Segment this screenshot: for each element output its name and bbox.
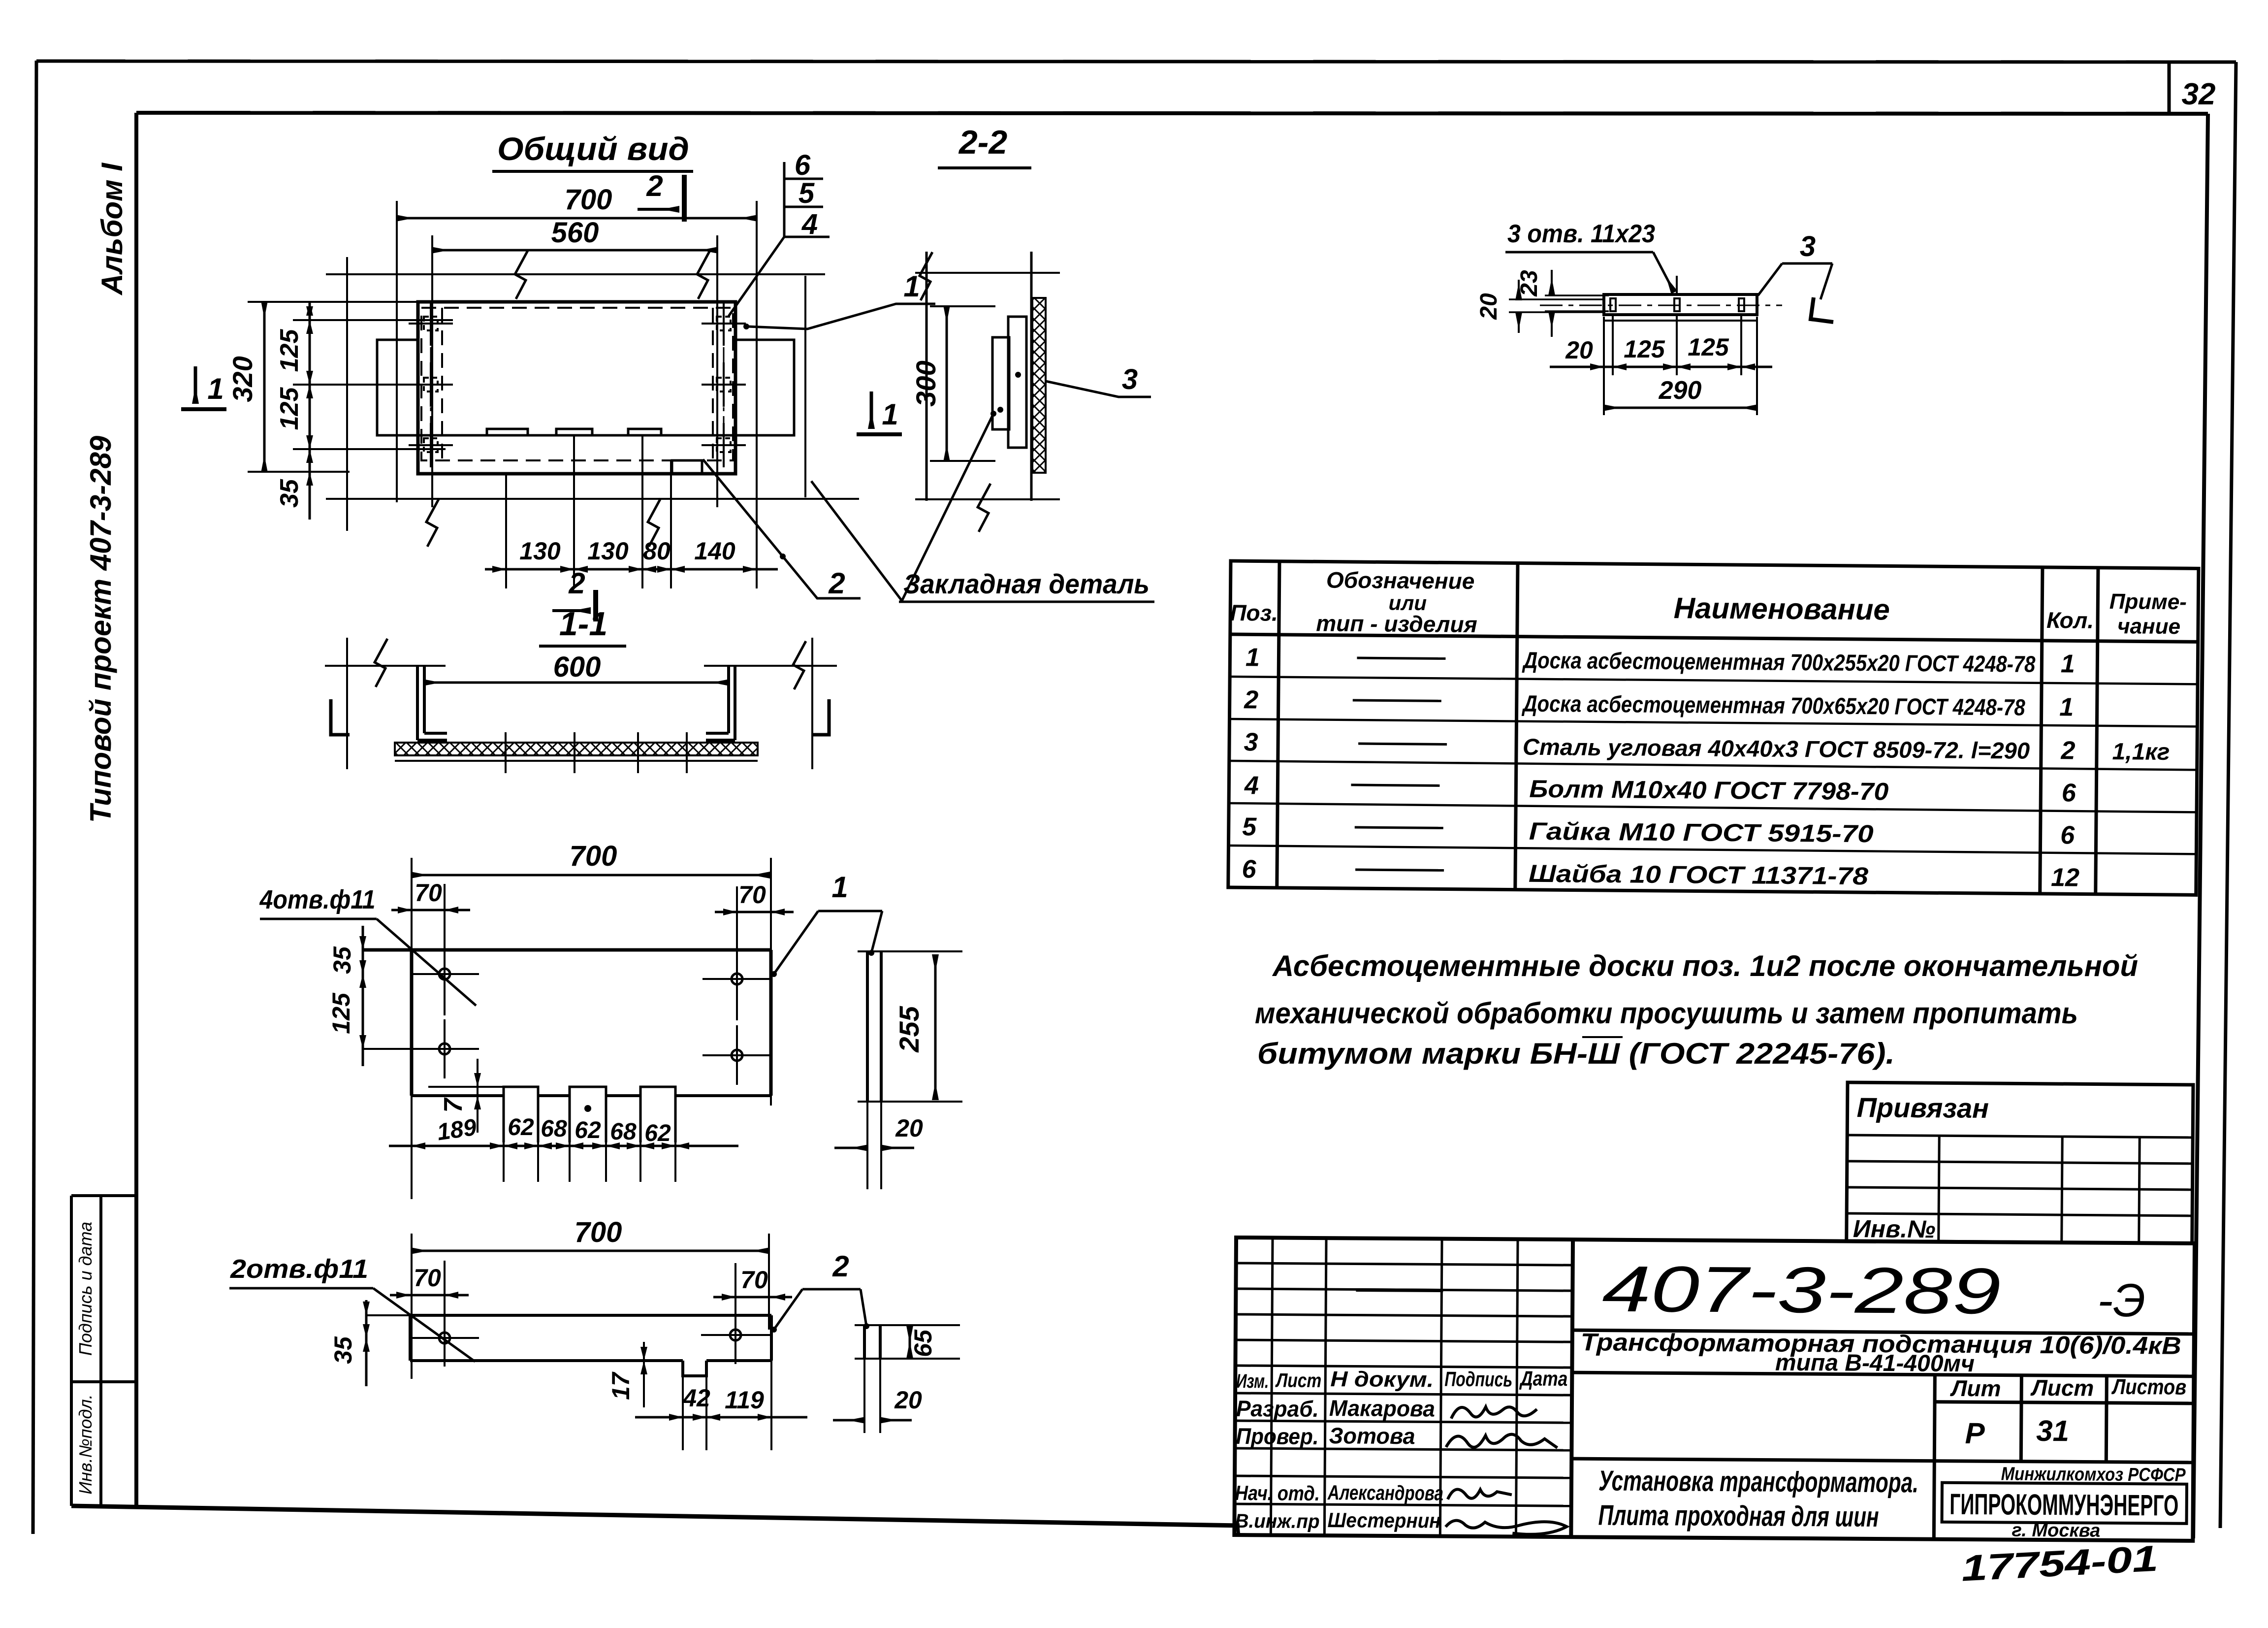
svg-text:Дата: Дата <box>1519 1367 1568 1391</box>
left angle profile <box>417 666 447 740</box>
bottom notch <box>672 460 702 474</box>
svg-text:20: 20 <box>1565 336 1593 364</box>
svg-text:1,1кг: 1,1кг <box>2112 739 2170 765</box>
svg-text:В.инж.пр: В.инж.пр <box>1235 1510 1319 1532</box>
top boundary tick <box>915 272 1060 274</box>
dim 300 extension bottom <box>930 460 995 462</box>
break mark on top wall line right <box>697 251 710 299</box>
plate outline <box>418 302 735 474</box>
dim 70 left <box>390 1294 469 1297</box>
slot 1 <box>504 1087 538 1142</box>
left extension vertical <box>411 858 413 1199</box>
angle profile symbol <box>1811 297 1833 322</box>
svg-text:35: 35 <box>328 946 356 974</box>
svg-text:300: 300 <box>910 360 941 406</box>
hole bottom-right <box>703 1009 771 1085</box>
slot 2 <box>570 1087 606 1142</box>
dimension 700 <box>412 874 769 877</box>
plate bottom edge with slots <box>412 1094 771 1097</box>
plate right edge <box>769 950 773 1096</box>
bottom chain dims 189/62/68/62/68/62 <box>389 1145 738 1147</box>
svg-text:1: 1 <box>2061 650 2075 678</box>
svg-text:80: 80 <box>643 537 671 565</box>
hole top-left <box>410 944 479 1004</box>
svg-text:2: 2 <box>646 169 663 202</box>
wall line right <box>811 638 813 769</box>
svg-text:5: 5 <box>799 177 815 209</box>
svg-text:Альбом I: Альбом I <box>96 163 128 296</box>
svg-text:20: 20 <box>895 1114 923 1142</box>
break mark on bottom wall line <box>426 498 439 547</box>
svg-text:Общий вид: Общий вид <box>497 130 689 167</box>
hole left <box>410 1310 479 1367</box>
plate left edge <box>410 950 414 1096</box>
board pos.1 in section <box>1008 317 1026 448</box>
mini dim 7 <box>477 1059 479 1133</box>
svg-text:125: 125 <box>327 992 355 1034</box>
mini dim 17 <box>643 1342 645 1407</box>
dimension 700 <box>397 217 757 220</box>
svg-text:Листов: Листов <box>2111 1375 2186 1400</box>
svg-text:70: 70 <box>738 881 766 909</box>
section mark 1 right <box>857 391 902 434</box>
svg-text:62: 62 <box>644 1120 671 1146</box>
svg-text:Приме-: Приме- <box>2109 589 2187 614</box>
svg-text:Подпись: Подпись <box>1444 1368 1512 1391</box>
bottom dimension line 130 130 80 140 <box>485 568 778 571</box>
break mark on bottom wall line right <box>648 498 661 547</box>
dim 70 left <box>391 909 470 912</box>
dimension 700 <box>412 1250 769 1252</box>
cut hooks <box>331 699 350 735</box>
svg-text:125: 125 <box>275 329 304 372</box>
svg-text:125: 125 <box>1688 333 1729 361</box>
bus tab 2 <box>556 429 592 435</box>
dimension 290 <box>1604 407 1757 409</box>
svg-text:Асбестоцементные доски поз. 1: Асбестоцементные доски поз. 1и2 после ок… <box>1272 949 2138 982</box>
svg-text:20: 20 <box>894 1386 922 1414</box>
dash mark in upper row <box>1356 1290 1443 1290</box>
dimension 320 <box>263 302 266 472</box>
svg-text:6: 6 <box>2060 821 2075 849</box>
bus tab 3 <box>628 429 661 435</box>
dimension 65 <box>909 1327 911 1358</box>
svg-text:560: 560 <box>551 217 599 249</box>
chain dim 35/125 left <box>362 926 364 1066</box>
slot 3 <box>1739 298 1744 311</box>
section mark 1 left <box>181 366 226 409</box>
left dimension extension lines <box>248 302 453 472</box>
leader 3 <box>1046 381 1151 397</box>
plate inner bottom line <box>418 434 735 437</box>
ext line hole2 left <box>363 1048 473 1050</box>
svg-text:Нач. отд.: Нач. отд. <box>1235 1481 1320 1505</box>
extension line 560 right <box>716 235 718 507</box>
hidden line right strip <box>712 308 714 460</box>
svg-text:35: 35 <box>329 1336 357 1364</box>
dimension 20 side <box>834 1147 867 1149</box>
svg-text:62: 62 <box>508 1114 534 1140</box>
wall bottom line <box>326 498 859 500</box>
svg-text:12: 12 <box>2051 863 2079 892</box>
wall left line <box>926 252 928 501</box>
svg-text:6: 6 <box>795 149 811 181</box>
center dot in slot 2 <box>584 1105 591 1112</box>
margin stamp boxes <box>71 1196 136 1506</box>
asbestos board strip hatched <box>395 743 758 755</box>
svg-text:130: 130 <box>519 537 561 565</box>
svg-text:битумом марки БН-Ш (ГОСТ 222: битумом марки БН-Ш (ГОСТ 22245-76). <box>1257 1037 1895 1070</box>
svg-text:Поз.: Поз. <box>1230 600 1278 626</box>
svg-text:-Э: -Э <box>2097 1274 2145 1327</box>
bolt centerlines <box>430 313 432 457</box>
extension line 700 right <box>756 201 758 588</box>
svg-text:2-2: 2-2 <box>958 124 1007 161</box>
slot tick marks <box>506 732 687 773</box>
inner frame top <box>136 113 2208 114</box>
svg-text:Изм.: Изм. <box>1236 1370 1269 1392</box>
svg-text:1-1: 1-1 <box>559 605 607 643</box>
hidden board outline <box>421 308 733 460</box>
hidden line left strip <box>441 308 443 460</box>
designation dashes <box>1350 658 1447 871</box>
svg-text:Провер.: Провер. <box>1236 1423 1318 1449</box>
bottom chain extension verticals <box>506 435 671 588</box>
hole top-right <box>703 949 771 1009</box>
outer border right <box>2220 62 2236 1528</box>
right part lines <box>1571 1330 2194 1541</box>
svg-text:20: 20 <box>1476 293 1502 320</box>
svg-text:3 отв. 11х23: 3 отв. 11х23 <box>1507 220 1655 248</box>
svg-text:2: 2 <box>568 567 585 600</box>
section mark 2 top <box>638 169 684 222</box>
svg-text:4: 4 <box>801 208 818 240</box>
svg-text:2: 2 <box>828 567 845 600</box>
bar centerline <box>1540 305 1782 306</box>
svg-text:Лист: Лист <box>1275 1369 1322 1392</box>
break marks on section walls <box>920 252 932 300</box>
notch extension verticals <box>683 1361 771 1450</box>
mini dim 20 vertical <box>1518 280 1520 299</box>
board pos.2 in section <box>992 337 1009 429</box>
hole right <box>701 1307 770 1364</box>
chain extension verticals below slots <box>504 1142 675 1182</box>
svg-text:Р: Р <box>1965 1417 1985 1450</box>
right extension vertical <box>770 858 772 1106</box>
bottom boundary tick <box>915 498 1060 500</box>
slot 2 <box>1674 298 1680 311</box>
plate pos.2 outline <box>410 1315 771 1376</box>
leader to general view <box>811 481 902 601</box>
svg-text:125: 125 <box>275 387 304 430</box>
dims 42 and 119 <box>635 1416 807 1419</box>
extension verticals below bar <box>1604 276 1757 415</box>
dim line 20/125/125 <box>1550 366 1772 368</box>
svg-text:Сталь угловая 40х40х3 ГОСТ 85: Сталь угловая 40х40х3 ГОСТ 8509-72. l=29… <box>1523 734 2030 764</box>
svg-text:700: 700 <box>575 1216 622 1248</box>
side view of board pos.1 <box>867 951 881 1102</box>
svg-text:700: 700 <box>570 840 617 872</box>
svg-text:119: 119 <box>725 1386 764 1414</box>
wall top line <box>326 273 825 275</box>
long vertical left <box>346 257 348 531</box>
svg-text:типа В-41-400мч: типа В-41-400мч <box>1775 1350 1975 1377</box>
svg-text:3: 3 <box>1800 230 1816 262</box>
dimension 255 <box>934 955 937 1099</box>
svg-text:255: 255 <box>894 1006 925 1052</box>
inner frame bottom (sloped) <box>71 1506 1240 1526</box>
svg-text:5: 5 <box>1242 813 1257 841</box>
svg-text:290: 290 <box>1659 376 1702 405</box>
dim 70 right <box>715 911 794 913</box>
svg-text:2: 2 <box>2060 736 2075 765</box>
svg-text:Обозначение: Обозначение <box>1326 567 1475 594</box>
break marks <box>375 639 387 687</box>
svg-text:Плита проходная для шин: Плита проходная для шин <box>1598 1499 1879 1533</box>
svg-text:65: 65 <box>909 1329 937 1357</box>
svg-text:Типовой проект 407-3-289: Типовой проект 407-3-289 <box>84 435 117 823</box>
angle steel hatched strip <box>1032 298 1046 473</box>
dimension 300 <box>946 306 948 461</box>
svg-text:Привязан: Привязан <box>1856 1092 1989 1124</box>
sheet number box divider <box>2168 62 2171 114</box>
hole ext vertical right <box>736 886 738 965</box>
extension line 560 left <box>431 235 433 507</box>
base line under strip <box>395 760 758 762</box>
svg-text:320: 320 <box>227 356 258 402</box>
angle bar top view <box>1604 294 1757 315</box>
svg-text:2: 2 <box>1244 685 1258 714</box>
side view of board pos.2 <box>864 1325 880 1359</box>
svg-text:140: 140 <box>694 537 735 565</box>
svg-text:70: 70 <box>414 1264 441 1292</box>
callout stack 6/5/4 <box>729 162 830 316</box>
svg-text:Шайба 10 ГОСТ 11371-78: Шайба 10 ГОСТ 11371-78 <box>1529 860 1869 890</box>
svg-text:Подпись и дата: Подпись и дата <box>75 1222 96 1356</box>
svg-text:Макарова: Макарова <box>1329 1395 1435 1421</box>
dimension 600 <box>424 682 729 684</box>
svg-text:1: 1 <box>882 398 898 431</box>
svg-text:70: 70 <box>415 879 442 907</box>
bolts right column <box>702 301 746 467</box>
wall right line <box>1030 252 1033 501</box>
dim 70 right <box>713 1296 792 1299</box>
svg-text:Кол.: Кол. <box>2046 607 2094 633</box>
svg-text:32: 32 <box>2182 77 2216 111</box>
svg-text:1: 1 <box>903 270 920 303</box>
bolt dot 2 <box>997 407 1003 413</box>
svg-text:Болт М10х40 ГОСТ 7798-70: Болт М10х40 ГОСТ 7798-70 <box>1529 775 1889 806</box>
svg-text:Наименование: Наименование <box>1673 591 1890 626</box>
thin extensions left <box>1509 295 1609 312</box>
svg-text:ГИПРОКОММУНЭНЕРГО: ГИПРОКОММУНЭНЕРГО <box>1949 1488 2178 1522</box>
right ear plate <box>735 340 794 435</box>
inner frame right <box>2193 114 2208 1538</box>
svg-text:Разраб.: Разраб. <box>1236 1396 1319 1422</box>
hole ext vertical left <box>444 884 446 960</box>
bolt chain dimension line <box>309 302 311 520</box>
svg-text:чание: чание <box>2117 614 2180 639</box>
slot 3 <box>640 1087 675 1142</box>
svg-text:68: 68 <box>541 1116 567 1142</box>
svg-text:70: 70 <box>740 1266 768 1294</box>
svg-text:Александрова: Александрова <box>1327 1481 1443 1504</box>
svg-text:г. Москва: г. Москва <box>2012 1520 2100 1541</box>
svg-text:Лист: Лист <box>2030 1375 2094 1401</box>
mini dim 23 vertical <box>1551 270 1553 294</box>
svg-text:407-3-289: 407-3-289 <box>1602 1253 2001 1328</box>
svg-text:125: 125 <box>1624 335 1665 363</box>
svg-text:Инв.№подл.: Инв.№подл. <box>75 1394 96 1494</box>
bar lip line <box>1604 320 1757 322</box>
svg-text:189: 189 <box>435 1114 478 1146</box>
svg-text:31: 31 <box>2036 1414 2069 1447</box>
svg-text:62: 62 <box>575 1117 601 1143</box>
dimension 20 side <box>833 1419 864 1422</box>
svg-text:68: 68 <box>610 1119 637 1145</box>
bolts left column <box>409 301 453 467</box>
svg-text:Шестернин: Шестернин <box>1327 1508 1440 1532</box>
svg-text:Н докум.: Н докум. <box>1330 1367 1434 1392</box>
svg-text:1: 1 <box>2059 693 2074 721</box>
section mark 2 bottom <box>552 567 596 621</box>
dimension 560 <box>432 249 717 252</box>
outer border left <box>33 61 36 1534</box>
bus tab 1 <box>487 429 528 435</box>
svg-text:6: 6 <box>1242 855 1256 883</box>
right angle profile <box>706 666 735 740</box>
leader to section 2-2 <box>902 414 993 601</box>
svg-text:4отв.ф11: 4отв.ф11 <box>259 885 376 914</box>
svg-text:Гайка М10 ГОСТ 5915-70: Гайка М10 ГОСТ 5915-70 <box>1529 817 1874 847</box>
bolt dot 1 <box>1015 372 1021 378</box>
svg-text:механической обработки просуш: механической обработки просушить и затем… <box>1255 997 2078 1030</box>
svg-text:Лит: Лит <box>1950 1375 2001 1401</box>
svg-text:2отв.ф11: 2отв.ф11 <box>230 1254 368 1284</box>
svg-text:4: 4 <box>1244 771 1259 800</box>
break mark on top wall line <box>515 251 528 299</box>
svg-text:Установка трансформатора.: Установка трансформатора. <box>1598 1465 1918 1499</box>
svg-text:3: 3 <box>1244 728 1258 756</box>
wall line left <box>346 638 348 769</box>
svg-text:23: 23 <box>1516 270 1542 297</box>
hole bottom-left <box>410 1004 479 1078</box>
plate top edge <box>363 948 771 952</box>
svg-text:Инв.№: Инв.№ <box>1853 1215 1936 1243</box>
dim 300 extension top <box>930 305 995 307</box>
svg-text:1: 1 <box>831 871 848 904</box>
svg-text:2: 2 <box>832 1250 849 1283</box>
left ear plate <box>377 340 418 435</box>
svg-text:35: 35 <box>275 479 304 508</box>
top ext ticks <box>325 665 446 667</box>
svg-text:3: 3 <box>1122 363 1138 395</box>
svg-text:тип - изделия: тип - изделия <box>1316 610 1477 637</box>
slot 1 <box>1610 298 1616 311</box>
outer border top <box>36 61 2236 62</box>
svg-text:Зотова: Зотова <box>1329 1423 1415 1449</box>
svg-text:6: 6 <box>2062 779 2076 807</box>
stray vertical right <box>804 276 806 497</box>
svg-text:7: 7 <box>439 1097 468 1112</box>
dim 35 <box>365 1300 368 1386</box>
svg-text:17: 17 <box>607 1371 635 1400</box>
svg-text:Закладная деталь: Закладная деталь <box>903 568 1150 599</box>
svg-text:Доска асбестоцементная 700х255: Доска асбестоцементная 700х255х20 ГОСТ 4… <box>1522 647 2036 677</box>
signatures <box>1451 1407 1537 1419</box>
svg-text:600: 600 <box>553 651 601 683</box>
svg-text:1: 1 <box>1246 643 1260 672</box>
inner frame left <box>134 113 138 1507</box>
svg-text:130: 130 <box>587 537 629 565</box>
svg-text:1: 1 <box>207 372 224 405</box>
svg-text:700: 700 <box>565 184 612 216</box>
extension line 700 left <box>396 201 398 502</box>
svg-text:Доска асбестоцементная 700х65х: Доска асбестоцементная 700х65х20 ГОСТ 42… <box>1521 690 2026 720</box>
